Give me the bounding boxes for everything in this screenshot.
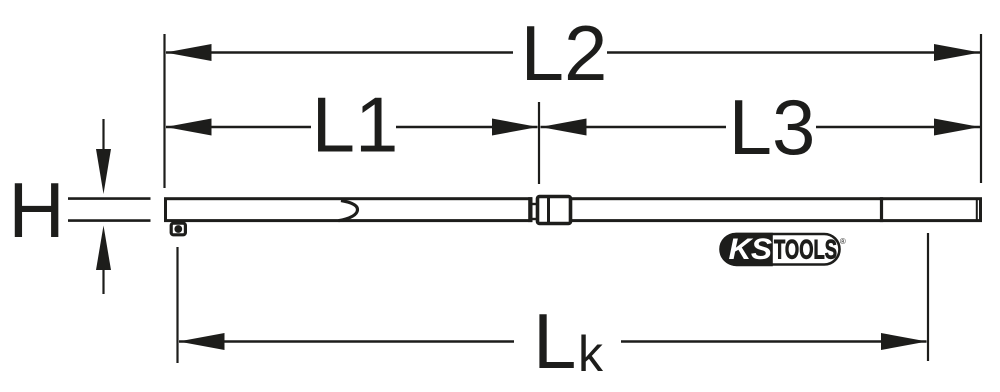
dimension L3 right arrow [934,119,980,136]
svg-text:L3: L3 [729,83,816,171]
KS TOOLS logo [720,233,846,266]
svg-text:L2: L2 [521,9,608,97]
svg-text:TOOLS: TOOLS [774,235,837,265]
dimension Lk line [179,340,514,342]
dimension L2 line [166,51,513,53]
wrench neck [531,204,538,219]
extension line left (x=164.5) [163,34,165,188]
H dimension lower arrow [96,226,111,271]
svg-text:k: k [578,326,604,382]
dimension Lk right arrow [881,333,927,350]
wrench square drive pin [174,225,182,233]
dimension Lk left arrow [179,333,225,350]
wrench adjustment collar [538,197,571,224]
extension line right (x=981) [980,34,982,183]
svg-text:H: H [8,166,64,254]
H dimension lower reference line [68,219,151,222]
dimension L1 left arrow [166,119,212,136]
wrench square drive [171,223,185,235]
wrench main tube right section [571,199,981,221]
H dimension upper arrow [102,119,104,151]
svg-text:L1: L1 [312,81,399,169]
wrench release chevron [339,201,358,221]
extension line middle (x=539) [538,102,540,184]
H dimension upper reference line [68,197,151,200]
wrench handle divider [880,197,883,222]
dimension L2 left arrow [166,44,212,61]
dimension L1 right arrow [492,119,538,136]
dimension L3 line [541,126,727,128]
svg-text:®: ® [840,237,846,246]
svg-text:L: L [533,297,576,385]
wrench tube cap [528,197,532,222]
dimension L3 left arrow [541,119,587,136]
dimension L1 line [166,126,311,128]
svg-text:KS: KS [729,233,773,266]
wrench collar divider [547,197,550,224]
wrench end inner line [976,199,978,221]
extension line Lk left (x=177.5) [176,247,178,363]
dimension L2 right arrow [934,44,980,61]
extension line Lk right (x=928) [927,233,929,361]
wrench main tube left section [166,199,532,221]
